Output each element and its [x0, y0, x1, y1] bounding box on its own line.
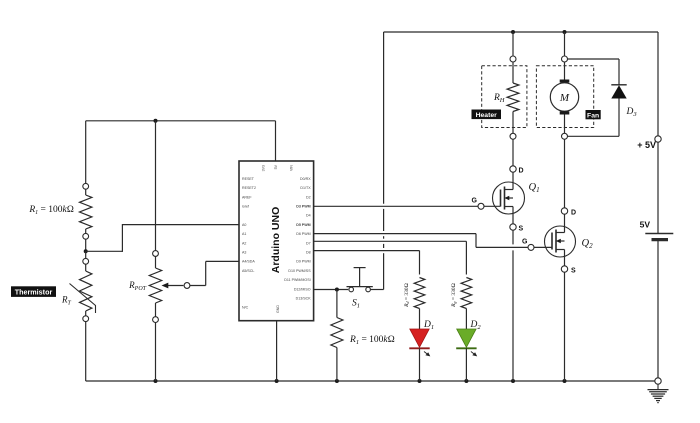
label: S1: [352, 299, 360, 310]
wire: D3 PWM to Q1 gate: [314, 205, 478, 207]
label: RPOT: [128, 280, 146, 292]
svg-text:A4/SDA: A4/SDA: [242, 260, 255, 264]
svg-text:D1: D1: [423, 320, 434, 331]
svg-text:ioref: ioref: [242, 205, 249, 209]
pin label: Arduino bottom GND: [276, 305, 280, 313]
svg-text:Heater: Heater: [476, 112, 498, 119]
svg-text:D: D: [519, 168, 524, 175]
label: RT: [61, 295, 72, 307]
diode D3 (flyback): [611, 85, 626, 137]
svg-text:A3: A3: [242, 251, 246, 255]
wire: battery negative to ground node: [657, 241, 659, 378]
svg-text:5V: 5V: [640, 219, 651, 229]
svg-text:RPOT: RPOT: [128, 280, 146, 292]
wire: Q2 source to ground rail: [564, 272, 566, 381]
wire: thermistor to ground rail: [85, 322, 87, 381]
node: junction Q2 source-ground: [563, 379, 567, 383]
svg-text:A2: A2: [242, 241, 246, 245]
svg-text:AREF: AREF: [242, 195, 252, 199]
label: D1: [423, 320, 434, 331]
svg-text:Rg = 330Ω: Rg = 330Ω: [451, 283, 457, 308]
wire: rail tap to heater: [512, 32, 514, 56]
label: G (Q1): [472, 198, 478, 205]
node: junction D2-ground: [464, 379, 468, 383]
wire: Arduino GND to ground rail: [276, 321, 278, 381]
node: junction S1 / pulldown R1: [335, 288, 339, 292]
LED D2 (green): [456, 329, 477, 356]
wire: top rail down to +5V terminal: [657, 32, 659, 136]
terminal: heater bottom: [510, 133, 516, 139]
Arduino UNO U1 body: [239, 161, 314, 321]
terminal: fan top: [562, 56, 568, 62]
node: junction D1-ground: [418, 379, 422, 383]
node: divider junction (R1/RT/A0): [84, 249, 88, 253]
terminal: heater top: [510, 56, 516, 62]
terminal: Q2 source: [561, 266, 567, 272]
label: Rd = 330 (rotated): [404, 283, 410, 308]
wire: +5V terminal to battery: [657, 142, 659, 233]
push button S1: [347, 268, 373, 292]
wire: Rpot to ground rail: [155, 323, 157, 382]
wire: R1 bottom to divider node: [85, 239, 87, 251]
svg-text:S: S: [519, 226, 524, 233]
LED D1 (red): [409, 329, 430, 356]
resistor R1 = 100k (pull-down): [331, 318, 343, 382]
svg-text:A0: A0: [242, 223, 246, 227]
resistor R1 = 100k (divider top): [80, 189, 92, 233]
battery V1 5V: [645, 234, 673, 242]
svg-text:D6 PWM: D6 PWM: [296, 232, 310, 236]
svg-text:A1: A1: [242, 232, 246, 236]
terminal: R1 bottom: [83, 233, 89, 239]
svg-text:D5 PWM: D5 PWM: [296, 223, 310, 227]
svg-text:GND: GND: [276, 305, 280, 313]
MOSFET Q2: [534, 214, 575, 266]
wire: LED D1 to ground rail: [419, 348, 421, 381]
terminal: Q2 drain: [561, 208, 567, 214]
terminal: Q2 gate: [528, 244, 534, 250]
label: Fan tag: [586, 110, 601, 119]
wire: divider node down: [85, 251, 87, 258]
svg-text:RESET2: RESET2: [242, 186, 256, 190]
node: junction 5V feed to Rpot: [154, 119, 158, 123]
label: 5V battery value: [640, 219, 651, 229]
svg-text:G: G: [522, 239, 528, 246]
node: +5V supply terminal: [655, 136, 661, 142]
svg-text:D3: D3: [626, 107, 638, 118]
wire: D8 to LED D1 branch: [314, 251, 420, 275]
label: Heater tag: [472, 110, 502, 120]
wire: D7 to LED D2 branch: [314, 241, 467, 274]
svg-text:G: G: [472, 198, 478, 205]
wire: Arduino 5V pin up: [275, 121, 277, 161]
svg-text:RESET: RESET: [242, 177, 255, 181]
heating element RH: [507, 62, 519, 133]
svg-text:Arduino UNO: Arduino UNO: [270, 207, 282, 274]
label: RH: [493, 93, 505, 104]
svg-text:D3 PWM: D3 PWM: [296, 205, 310, 209]
wire: Rd to LED D1: [419, 309, 421, 330]
node: junction Rpot-ground: [154, 379, 158, 383]
svg-text:D2: D2: [470, 320, 482, 331]
terminal: Q1 gate: [478, 203, 484, 209]
svg-text:S: S: [571, 268, 576, 275]
terminal: fan bottom: [562, 133, 568, 139]
svg-text:D0/RX: D0/RX: [300, 177, 311, 181]
svg-text:R1 = 100kΩ: R1 = 100kΩ: [28, 205, 74, 216]
motor M (fan): [550, 62, 578, 133]
label: Rg = 330 (rotated): [451, 283, 457, 308]
label: + 5V: [637, 140, 656, 150]
wire: rail tap to fan: [564, 32, 566, 56]
svg-text:VIN: VIN: [290, 165, 294, 171]
svg-text:D8: D8: [306, 251, 311, 255]
terminal: Rpot bottom: [153, 317, 159, 323]
wire: Q1 source to ground rail (with crossover): [512, 230, 514, 381]
node: junction Arduino GND-ground: [275, 379, 279, 383]
pin labels: Arduino top (3V3, 5V, VIN): [262, 164, 294, 171]
label: R1 = 100k (pull-down): [349, 335, 395, 346]
svg-text:D10 PWM/SS: D10 PWM/SS: [288, 269, 311, 273]
wire: +5V riser to top rail (with crossovers): [383, 32, 385, 290]
terminal: Rpot top: [153, 251, 159, 257]
thermistor RT: [70, 264, 96, 316]
svg-text:D1/TX: D1/TX: [300, 186, 311, 190]
terminal: thermistor top: [83, 258, 89, 264]
wire: D3 to fan bottom: [567, 135, 619, 137]
terminal: Rpot wiper: [184, 283, 190, 289]
potentiometer RPOT: [149, 256, 161, 316]
terminal: Q1 drain: [510, 166, 516, 172]
wire: LED D2 to ground rail: [465, 348, 467, 381]
svg-text:D4: D4: [306, 214, 311, 218]
svg-text:5V: 5V: [274, 164, 278, 169]
wire: fan top to D3: [568, 59, 620, 85]
wire: 5V feed down to R1: [85, 121, 87, 184]
svg-text:Q2: Q2: [582, 238, 594, 250]
wire: S1 to +5V riser: [370, 289, 383, 291]
label: Q2: [582, 238, 594, 250]
svg-text:A5/SCL: A5/SCL: [242, 269, 254, 273]
label: R1 = 100k: [28, 205, 74, 216]
node: junction R1pulldown-ground: [335, 379, 339, 383]
label: D2: [470, 320, 482, 331]
node: junction Q1 source-ground: [511, 379, 515, 383]
svg-text:D: D: [571, 210, 576, 217]
svg-text:R1 = 100kΩ: R1 = 100kΩ: [349, 335, 395, 346]
wire: divider node to A0 (step): [86, 224, 239, 252]
svg-text:M: M: [559, 92, 570, 104]
wire: ground bottom rail: [86, 380, 655, 382]
svg-text:+ 5V: + 5V: [637, 140, 656, 150]
pin labels: Arduino left (RESET..A5, N/C): [242, 177, 256, 309]
label: Thermistor tag: [11, 286, 56, 297]
svg-text:Rd = 330Ω: Rd = 330Ω: [404, 283, 410, 308]
terminal: R1 top: [83, 183, 89, 189]
svg-text:D9 PWM: D9 PWM: [296, 260, 310, 264]
MOSFET Q1: [484, 172, 524, 224]
label: D (Q1): [519, 168, 524, 175]
label: S (Q1): [519, 226, 524, 233]
wire: heater to Q1 drain: [512, 139, 514, 166]
heater dashed enclosure: [482, 66, 527, 128]
node: fan tap junction on +5V rail: [563, 30, 567, 34]
resistor Rg = 330 (for D2): [461, 278, 472, 309]
wire: 5V feed horizontal: [86, 120, 276, 122]
svg-text:3V3: 3V3: [262, 165, 266, 171]
svg-text:Fan: Fan: [587, 112, 599, 119]
wire: +5V top rail: [384, 31, 658, 33]
svg-text:N/C: N/C: [242, 305, 249, 309]
label: G (Q2): [522, 239, 528, 246]
svg-text:RH: RH: [493, 93, 505, 104]
wire: S1 node down to R1: [336, 290, 338, 318]
label: S (Q2): [571, 268, 576, 275]
node: heater tap junction on +5V rail: [511, 30, 515, 34]
resistor Rd = 330 (for D1): [414, 278, 425, 309]
label: Q1: [529, 182, 540, 194]
pin labels: Arduino right (D0..D13): [284, 177, 311, 301]
svg-text:D7: D7: [306, 241, 311, 245]
label: Arduino UNO title: [270, 207, 282, 274]
svg-text:Q1: Q1: [529, 182, 540, 194]
terminal: Q1 source: [510, 224, 516, 230]
label: D3: [626, 107, 638, 118]
wire: 5V feed to Rpot top: [155, 121, 157, 251]
wire: wiper to Arduino A4: [190, 261, 239, 285]
terminal: thermistor bottom: [83, 316, 89, 322]
svg-text:D11 PWM/MOSI: D11 PWM/MOSI: [284, 278, 310, 282]
wiper arrow of RPOT: [162, 283, 184, 289]
wire: D6 PWM to Q2 gate: [314, 234, 528, 248]
label: D (Q2): [571, 210, 576, 217]
wire: fan to Q2 drain: [564, 139, 566, 208]
node: ground terminal circle: [655, 378, 661, 384]
svg-text:Thermistor: Thermistor: [15, 288, 53, 297]
fan dashed enclosure: [536, 66, 593, 128]
svg-text:D12/MISO: D12/MISO: [294, 287, 311, 291]
wire: Rg to LED D2: [465, 309, 467, 330]
svg-text:RT: RT: [61, 295, 72, 307]
wire: D12 to S1: [314, 289, 349, 291]
svg-text:D2: D2: [306, 195, 311, 199]
svg-text:S1: S1: [352, 299, 360, 310]
ground symbol (hatched earth): [648, 384, 669, 402]
svg-text:D13/SCK: D13/SCK: [296, 297, 312, 301]
